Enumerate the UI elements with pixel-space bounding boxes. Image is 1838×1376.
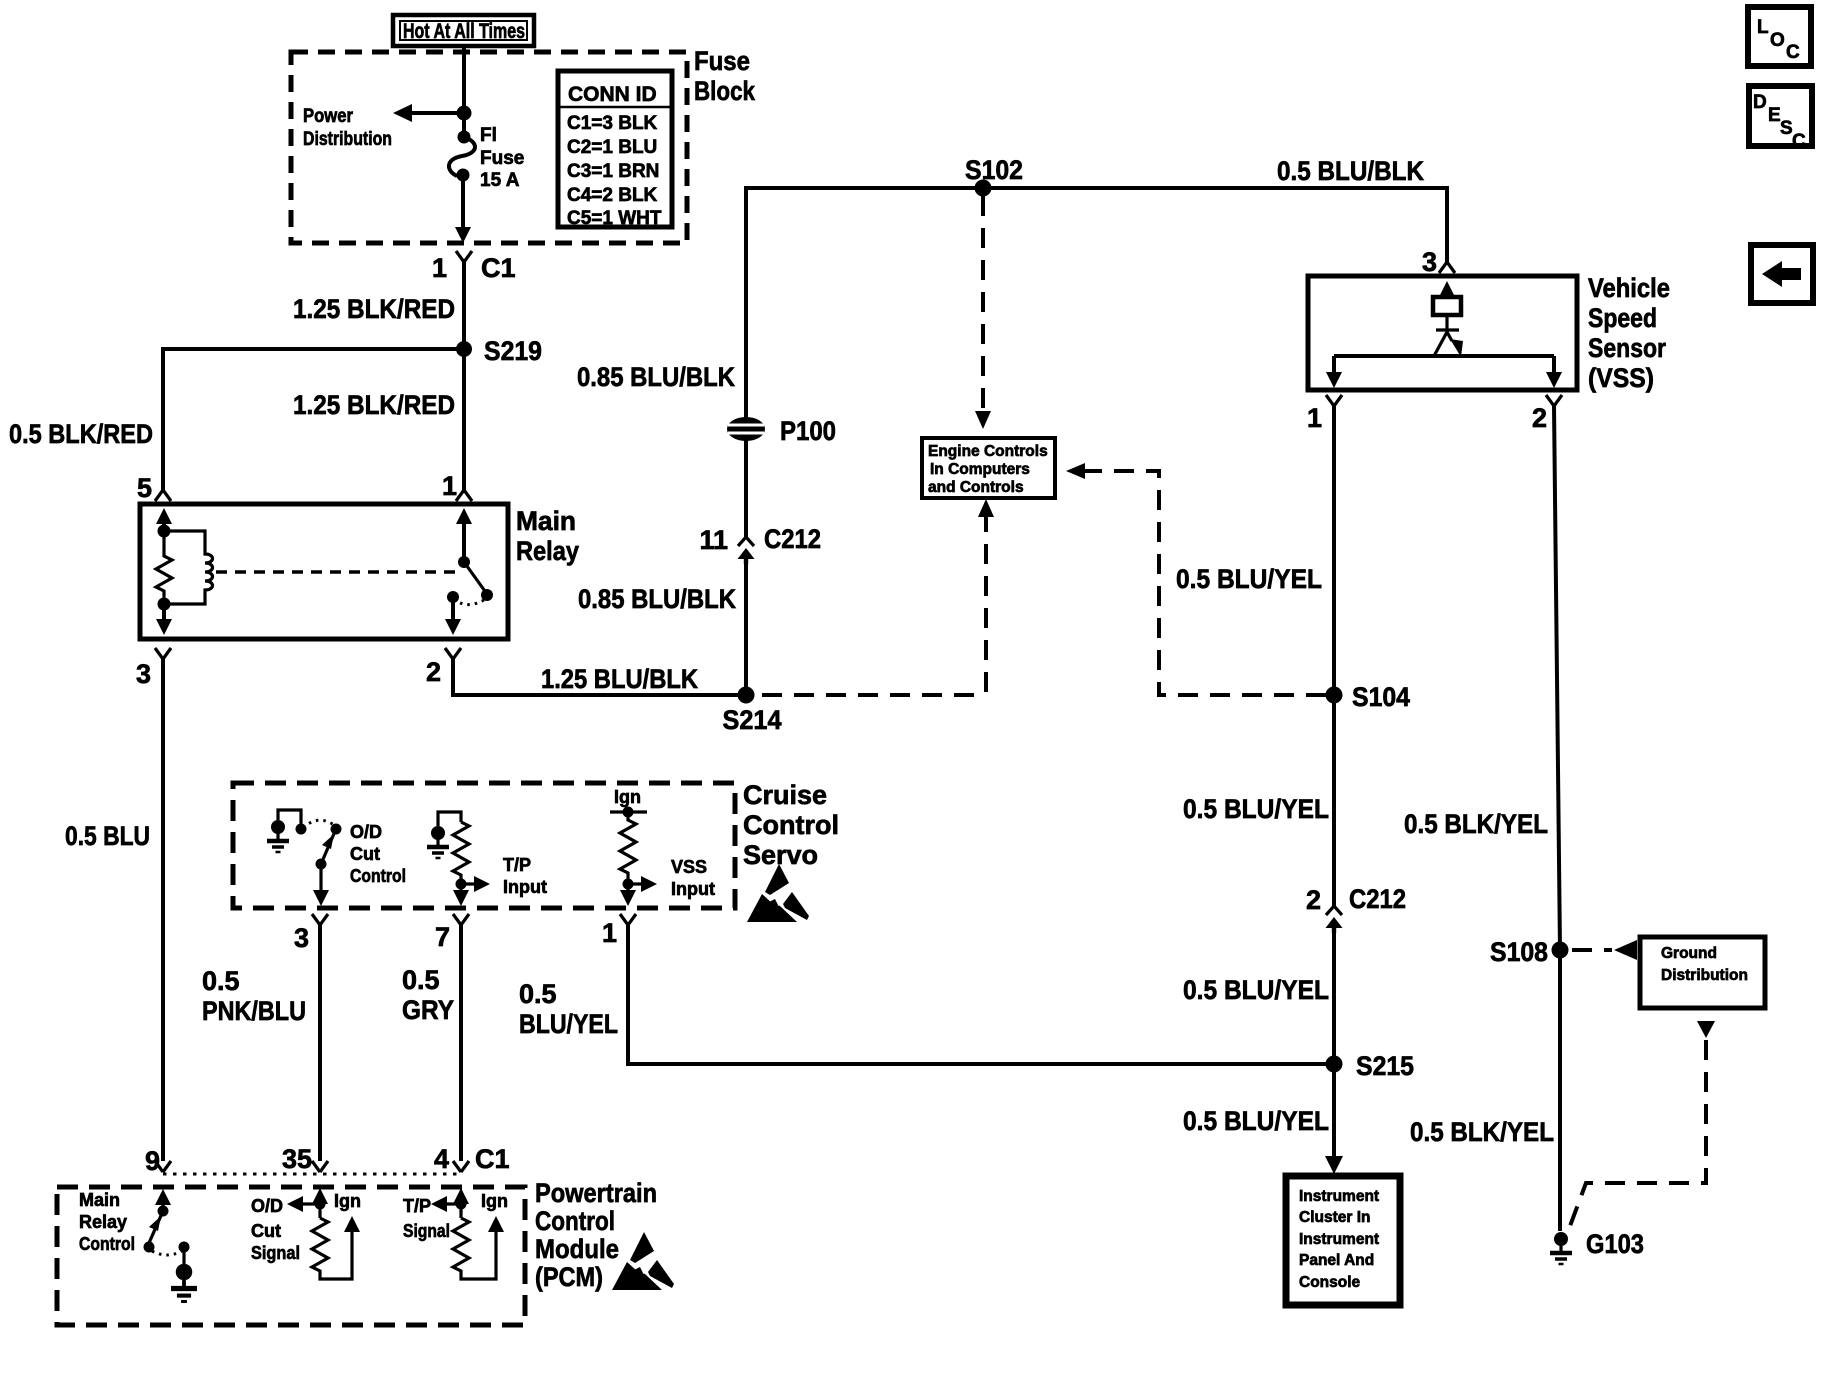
svg-text:Main: Main — [516, 506, 576, 536]
svg-text:0.5 BLK/YEL: 0.5 BLK/YEL — [1404, 809, 1548, 839]
wire T/P to pin 7 — [459, 884, 462, 896]
svg-text:Engine Controls: Engine Controls — [928, 443, 1048, 460]
relay coil winding — [164, 531, 213, 604]
vehicle speed sensor box — [1308, 276, 1577, 390]
wire power distribution arrow — [406, 111, 464, 115]
wire S219 down to relay pin 1 — [462, 349, 466, 490]
svg-text:C1=3 BLK: C1=3 BLK — [567, 113, 658, 134]
svg-text:Cut: Cut — [251, 1221, 281, 1241]
ground in T/P input — [427, 826, 449, 858]
resistor VSS input — [620, 812, 636, 884]
pin 4 of PCM — [453, 1161, 469, 1172]
svg-text:1.25 BLU/BLK: 1.25 BLU/BLK — [541, 664, 698, 694]
svg-text:Relay: Relay — [79, 1212, 127, 1232]
label Hot At All Times — [393, 15, 534, 46]
svg-text:O/D: O/D — [251, 1196, 283, 1216]
pin 5 of main relay — [155, 490, 171, 501]
O/D switch arm — [331, 824, 342, 835]
svg-text:Signal: Signal — [251, 1243, 300, 1263]
connector C212 pin 2 — [1326, 906, 1343, 933]
svg-text:3: 3 — [294, 923, 309, 953]
wire VSS input to pin 1 — [626, 884, 629, 896]
powertrain control module dashed box — [57, 1187, 525, 1325]
resistor T/P signal — [453, 1218, 496, 1279]
fuse Fl 15A — [449, 131, 475, 182]
svg-text:Control: Control — [79, 1234, 135, 1254]
svg-text:VSS: VSS — [671, 857, 707, 877]
pin 7 of cruise servo — [453, 914, 469, 925]
svg-text:Fl: Fl — [480, 125, 497, 146]
svg-text:C1: C1 — [481, 253, 516, 283]
pin 9 of PCM — [155, 1161, 171, 1172]
relay switch arm — [464, 562, 487, 594]
node S215 — [1326, 1056, 1343, 1073]
wire relay pin 2 to S214 — [453, 659, 746, 695]
svg-text:0.5 BLU/BLK: 0.5 BLU/BLK — [1277, 156, 1424, 186]
svg-text:0.5 BLU/YEL: 0.5 BLU/YEL — [1183, 1106, 1329, 1136]
svg-text:O/D: O/D — [350, 822, 382, 842]
svg-text:Servo: Servo — [743, 840, 818, 870]
svg-text:Ground: Ground — [1661, 945, 1717, 962]
svg-text:Block: Block — [694, 76, 756, 106]
svg-text:0.5 BLU/YEL: 0.5 BLU/YEL — [1183, 794, 1329, 824]
svg-text:T/P: T/P — [403, 1196, 431, 1216]
svg-text:Cluster In: Cluster In — [1299, 1209, 1370, 1226]
svg-text:1: 1 — [602, 918, 617, 948]
svg-text:0.5 BLK/YEL: 0.5 BLK/YEL — [1410, 1117, 1554, 1147]
dashed wire S108 to ground distribution — [1572, 948, 1612, 952]
svg-text:Ign: Ign — [614, 787, 641, 807]
node S214 — [738, 687, 755, 704]
svg-text:In Computers: In Computers — [930, 461, 1030, 478]
svg-text:PNK/BLU: PNK/BLU — [202, 996, 306, 1026]
svg-text:4: 4 — [434, 1144, 449, 1174]
svg-text:Fuse: Fuse — [480, 148, 524, 169]
svg-text:O: O — [1770, 30, 1785, 51]
cruise control servo dashed box — [233, 783, 735, 908]
wire ground to O/D switch contact — [278, 810, 301, 824]
svg-text:C212: C212 — [1349, 884, 1406, 914]
svg-text:Module: Module — [535, 1234, 619, 1264]
node S102 — [975, 180, 992, 197]
pin 2 of VSS — [1546, 395, 1562, 406]
svg-text:Cut: Cut — [350, 844, 380, 864]
relay coil top node — [158, 525, 171, 538]
T/P signal input arrow — [453, 1188, 469, 1204]
svg-text:1: 1 — [442, 471, 457, 501]
svg-text:S: S — [1780, 118, 1793, 139]
svg-text:C: C — [1786, 42, 1800, 63]
svg-text:Distribution: Distribution — [303, 129, 392, 150]
relay coil bottom lead arrow — [162, 604, 166, 622]
svg-text:0.5: 0.5 — [519, 979, 557, 1009]
connector C212 pin 11 — [738, 537, 755, 564]
svg-text:Input: Input — [503, 877, 547, 897]
wire relay pin 3 down to PCM pin 9 — [161, 659, 165, 1161]
pin 1 of cruise servo — [620, 914, 636, 925]
svg-text:0.85 BLU/BLK: 0.85 BLU/BLK — [577, 362, 735, 392]
O/D cut signal input arrow — [312, 1188, 328, 1204]
dashed wire S104 to engine controls right — [1066, 463, 1085, 479]
pin 3 of main relay — [155, 648, 171, 659]
svg-text:2: 2 — [1306, 885, 1321, 915]
svg-text:Panel And: Panel And — [1299, 1252, 1374, 1269]
main relay control contact to ground — [179, 1242, 190, 1253]
engine controls box — [922, 438, 1055, 498]
svg-text:7: 7 — [435, 922, 450, 952]
svg-text:GRY: GRY — [402, 995, 454, 1025]
ground in PCM — [171, 1264, 197, 1302]
svg-text:S219: S219 — [484, 336, 542, 366]
svg-text:Instrument: Instrument — [1299, 1188, 1379, 1205]
svg-text:Relay: Relay — [516, 536, 579, 566]
svg-text:1: 1 — [1307, 403, 1322, 433]
ground distribution box — [1640, 937, 1765, 1008]
svg-text:S214: S214 — [723, 705, 782, 735]
svg-text:Hot At All Times: Hot At All Times — [403, 20, 525, 43]
relay coil bottom node — [158, 598, 171, 611]
relay actuation dashed link — [216, 570, 459, 574]
wire from Hot At All Times down into fuse block — [462, 46, 466, 136]
wire VSS pin 1 down to instrument cluster — [1332, 406, 1336, 906]
relay switch pivot — [458, 556, 470, 568]
main relay box — [140, 504, 508, 639]
svg-text:5: 5 — [137, 473, 152, 503]
svg-text:1.25 BLK/RED: 1.25 BLK/RED — [293, 294, 455, 324]
svg-text:C1: C1 — [475, 1144, 510, 1174]
svg-text:1.25 BLK/RED: 1.25 BLK/RED — [293, 390, 455, 420]
svg-text:Control: Control — [350, 866, 406, 886]
wire fuse to C1 — [461, 176, 465, 231]
node power distribution tap — [457, 106, 472, 121]
VSS input node and arrow — [623, 879, 634, 890]
connector C1 pin 1 — [456, 251, 472, 262]
svg-text:P100: P100 — [780, 416, 836, 446]
svg-text:0.5 BLU: 0.5 BLU — [65, 821, 150, 851]
pin 35 of PCM — [312, 1161, 328, 1172]
VSS pickup sensor symbol — [1326, 281, 1562, 388]
pin 3 of cruise servo — [312, 914, 328, 925]
dashed wire S102 down to engine controls — [981, 196, 985, 414]
Ign arrow T/P — [488, 1216, 504, 1232]
svg-text:C3=1 BRN: C3=1 BRN — [567, 161, 659, 182]
ground G103 — [1550, 1232, 1572, 1264]
svg-text:E: E — [1768, 105, 1781, 126]
svg-text:G103: G103 — [1586, 1229, 1644, 1259]
wire S219 branch to left — [163, 349, 464, 490]
svg-text:BLU/YEL: BLU/YEL — [519, 1009, 618, 1039]
svg-text:0.5: 0.5 — [402, 965, 440, 995]
pin 1 of main relay — [456, 490, 472, 501]
back arrow icon box — [1751, 245, 1813, 303]
O/D switch dotted throw — [303, 820, 334, 828]
node S219 — [456, 341, 472, 357]
dashed wire S214 to engine controls bottom — [978, 499, 994, 517]
O/D switch pivot and output arrow — [316, 859, 327, 870]
svg-text:3: 3 — [136, 659, 151, 689]
svg-text:Sensor: Sensor — [1588, 333, 1666, 363]
node S108 — [1552, 942, 1569, 959]
wire S214 up through P100 and C212 to top run — [744, 560, 748, 695]
svg-text:S215: S215 — [1356, 1051, 1414, 1081]
svg-text:0.5 BLK/RED: 0.5 BLK/RED — [9, 419, 153, 449]
dashed wire ground distribution to G103 — [1697, 1021, 1715, 1038]
fuse block dashed box — [291, 52, 687, 243]
pin 1 of VSS — [1326, 395, 1342, 406]
resistor O/D cut signal — [312, 1218, 352, 1279]
ESD symbol cruise — [747, 864, 809, 922]
svg-text:3: 3 — [1422, 247, 1437, 277]
svg-text:Distribution: Distribution — [1661, 967, 1748, 984]
svg-text:C4=2 BLK: C4=2 BLK — [567, 185, 658, 206]
svg-text:Fuse: Fuse — [694, 46, 750, 76]
resistor T/P input — [453, 822, 469, 884]
svg-text:C212: C212 — [764, 524, 821, 554]
Ign arrow O/D — [344, 1216, 360, 1232]
node S104 — [1326, 687, 1343, 704]
svg-text:(PCM): (PCM) — [535, 1262, 603, 1292]
T/P input node and arrow — [456, 879, 467, 890]
svg-text:C: C — [1792, 131, 1806, 152]
svg-text:Power: Power — [303, 106, 354, 127]
DESC icon box — [1749, 86, 1812, 152]
svg-text:(VSS): (VSS) — [1588, 363, 1654, 393]
svg-text:T/P: T/P — [503, 855, 531, 875]
svg-text:CONN ID: CONN ID — [568, 83, 657, 106]
svg-text:11: 11 — [699, 525, 728, 555]
svg-text:Ign: Ign — [481, 1191, 508, 1211]
relay resistor — [156, 531, 172, 604]
PCM connector dotted line — [163, 1173, 461, 1176]
ESD symbol PCM — [612, 1232, 674, 1290]
relay switch contact — [447, 591, 459, 603]
svg-text:Vehicle: Vehicle — [1588, 273, 1670, 303]
wire C1 to S219 — [462, 262, 466, 349]
main relay control switch — [155, 1189, 171, 1205]
svg-text:Instrument: Instrument — [1299, 1231, 1379, 1248]
svg-text:S104: S104 — [1352, 682, 1410, 712]
svg-text:Main: Main — [79, 1190, 120, 1210]
svg-text:Signal: Signal — [403, 1221, 450, 1241]
svg-text:0.85 BLU/BLK: 0.85 BLU/BLK — [578, 584, 736, 614]
main relay control dotted throw — [152, 1251, 182, 1255]
relay switch output arrow — [451, 597, 455, 622]
svg-text:35: 35 — [282, 1144, 312, 1174]
svg-text:0.5: 0.5 — [202, 966, 240, 996]
connector P100 — [727, 417, 765, 441]
svg-text:Input: Input — [671, 879, 715, 899]
svg-text:15 A: 15 A — [480, 170, 520, 191]
svg-text:C2=1 BLU: C2=1 BLU — [567, 137, 657, 158]
wire cruise pin 3 to PCM pin 35 — [318, 925, 322, 1161]
svg-text:0.5 BLU/YEL: 0.5 BLU/YEL — [1176, 564, 1322, 594]
relay switch common lead arrow — [456, 508, 472, 524]
svg-text:0.5 BLU/YEL: 0.5 BLU/YEL — [1183, 975, 1329, 1005]
svg-text:Ign: Ign — [334, 1191, 361, 1211]
wire ground to T/P resistor — [438, 812, 461, 826]
Ign feed bar — [610, 810, 647, 813]
svg-text:S102: S102 — [965, 155, 1023, 185]
svg-text:L: L — [1757, 17, 1769, 38]
svg-text:Powertrain: Powertrain — [535, 1178, 657, 1208]
instrument cluster box — [1286, 1176, 1400, 1305]
relay coil left lead arrow — [156, 508, 172, 524]
ground in O/D cut control — [267, 820, 289, 852]
svg-text:Console: Console — [1299, 1274, 1361, 1291]
svg-text:and Controls: and Controls — [928, 479, 1024, 496]
wire cruise pin 1 to S215 — [628, 925, 1334, 1064]
CONN ID table — [558, 71, 672, 229]
svg-text:2: 2 — [426, 657, 441, 687]
svg-text:1: 1 — [432, 253, 447, 283]
pin 2 of main relay — [445, 648, 461, 659]
svg-text:2: 2 — [1532, 403, 1547, 433]
svg-text:C5=1 WHT: C5=1 WHT — [567, 208, 662, 229]
wire cruise pin 7 to PCM pin 4 — [459, 925, 463, 1161]
svg-text:Control: Control — [743, 810, 839, 840]
pin 3 of VSS — [1439, 262, 1455, 273]
svg-text:S108: S108 — [1490, 937, 1548, 967]
svg-text:Speed: Speed — [1588, 303, 1657, 333]
wire VSS pin 2 down to G103 — [1554, 406, 1560, 1231]
svg-text:Control: Control — [535, 1206, 615, 1236]
LOC icon box — [1748, 7, 1811, 66]
svg-text:Cruise: Cruise — [743, 780, 827, 810]
svg-text:9: 9 — [145, 1146, 160, 1176]
svg-text:D: D — [1753, 92, 1767, 113]
